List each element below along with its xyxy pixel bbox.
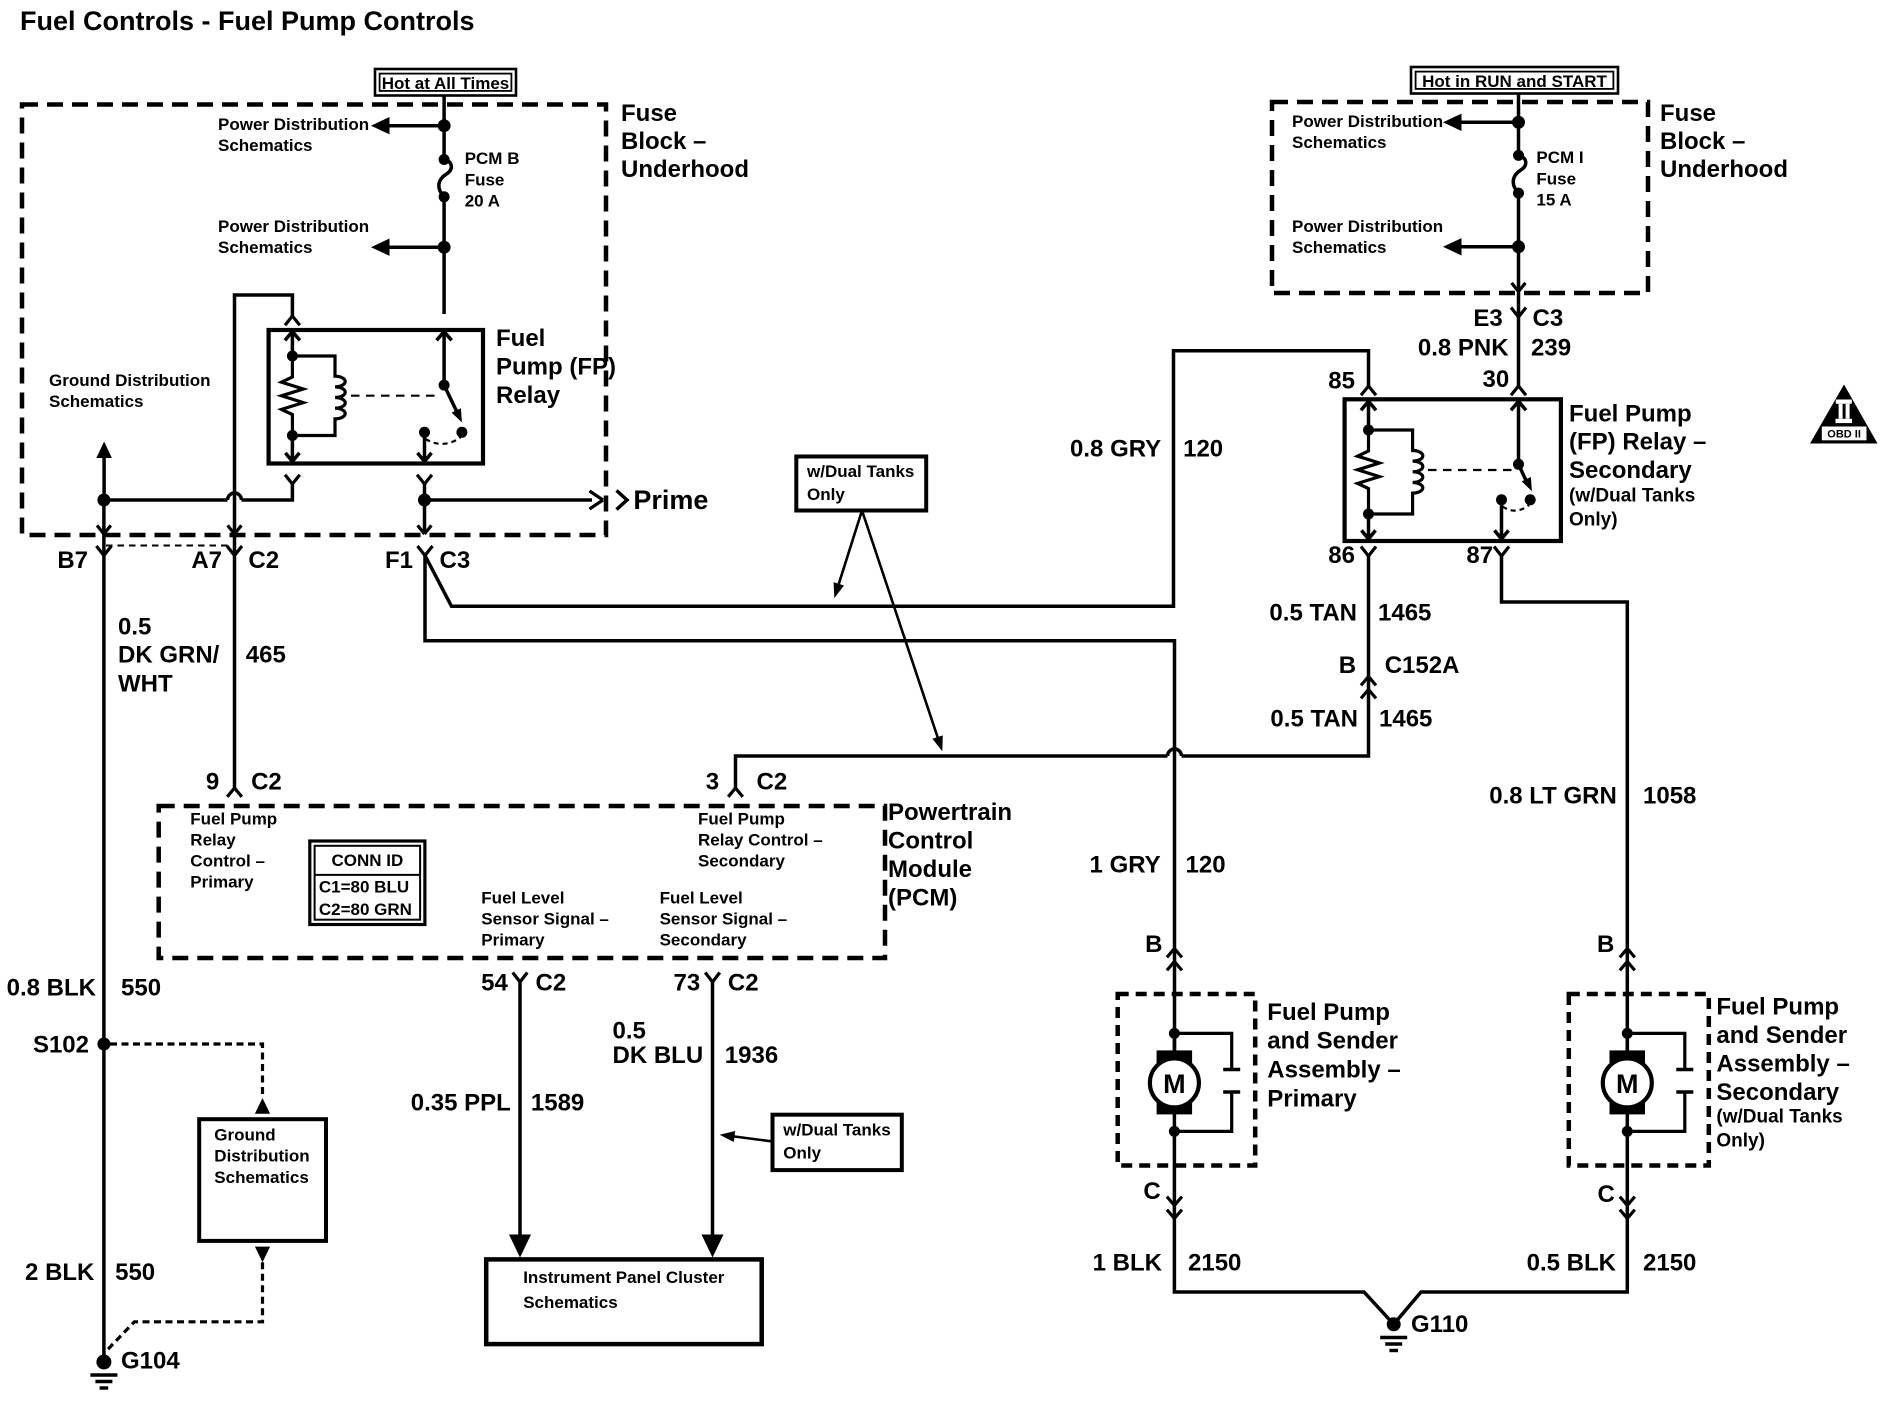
svg-text:1 BLK: 1 BLK xyxy=(1093,1250,1163,1277)
fuse PCM I 15A xyxy=(1513,150,1526,199)
svg-text:Fuse: Fuse xyxy=(1536,169,1576,188)
svg-text:30: 30 xyxy=(1482,366,1509,393)
svg-text:Ground Distribution: Ground Distribution xyxy=(49,371,210,390)
arrow down out of ground distribution reference xyxy=(255,1247,270,1263)
arrow up toward Ground Distribution Schematics xyxy=(96,442,112,501)
label: Power Distribution Schematics (right bottom) xyxy=(1292,217,1443,257)
inline connector C double chevron (primary pump) xyxy=(1167,1197,1182,1219)
svg-text:C2=80 GRN: C2=80 GRN xyxy=(319,900,412,919)
svg-text:C: C xyxy=(1143,1178,1160,1205)
wire arrow to Power Distribution Schematics (right bottom) xyxy=(1443,238,1519,255)
svg-text:(PCM): (PCM) xyxy=(888,885,957,912)
svg-text:E3: E3 xyxy=(1473,305,1502,332)
fuse block underhood (left) dashed box xyxy=(22,105,606,536)
wire hop over GRY wire xyxy=(1168,749,1182,756)
svg-text:Hot in RUN and START: Hot in RUN and START xyxy=(1422,72,1607,91)
secondary relay pin 85 arrow inside xyxy=(1361,401,1376,430)
secondary pump top node xyxy=(1622,1028,1633,1039)
connector Y at PCM pin 9 xyxy=(227,788,242,797)
fuse PCM B 20A xyxy=(439,154,452,202)
svg-text:Schematics: Schematics xyxy=(523,1293,618,1312)
svg-text:465: 465 xyxy=(246,642,286,669)
wire: A7 branch (bend above relay to pin 85 top) xyxy=(235,295,293,534)
svg-text:Block –: Block – xyxy=(621,128,706,155)
svg-text:20 A: 20 A xyxy=(465,192,500,211)
wire: A7 to PCM pin 9 xyxy=(233,534,237,788)
svg-text:Only): Only) xyxy=(1716,1131,1765,1152)
CONN ID table box xyxy=(310,841,425,925)
wire label 0.5 DK GRN/WHT 465 xyxy=(118,614,286,698)
svg-text:(w/Dual Tanks: (w/Dual Tanks xyxy=(1716,1107,1842,1128)
svg-text:w/Dual Tanks: w/Dual Tanks xyxy=(806,462,914,481)
svg-text:550: 550 xyxy=(115,1259,155,1286)
svg-text:Assembly –: Assembly – xyxy=(1716,1051,1849,1078)
svg-text:1465: 1465 xyxy=(1379,706,1432,733)
label: Power Distribution Schematics (bottom) xyxy=(218,217,369,257)
wire arrow to Power Distribution Schematics (top) xyxy=(371,117,444,134)
svg-text:Secondary: Secondary xyxy=(698,852,785,871)
svg-text:3: 3 xyxy=(706,769,719,796)
wire: F1 to secondary relay pin 85 (0.8 GRY 120) xyxy=(425,351,1369,607)
wire: pin 73 to instrument panel cluster (0.5 DK BLU 1936) xyxy=(702,982,724,1258)
svg-text:Assembly –: Assembly – xyxy=(1267,1057,1400,1084)
svg-text:Fuel Level: Fuel Level xyxy=(660,889,743,908)
w/Dual Tanks Only callout box (bottom) xyxy=(773,1115,902,1170)
svg-text:Secondary: Secondary xyxy=(1569,457,1692,484)
svg-text:C1=80 BLU: C1=80 BLU xyxy=(319,877,409,896)
svg-text:Prime: Prime xyxy=(633,485,708,515)
connector Y above secondary relay pin 30 xyxy=(1511,386,1526,395)
primary fuel level sender xyxy=(1174,1033,1231,1131)
secondary relay switch arm with arrowhead xyxy=(1519,464,1532,491)
ground G104 xyxy=(90,1355,117,1389)
label: Fuse Block - Underhood (left) xyxy=(621,100,749,183)
connector Y at PCM pin 54 xyxy=(513,973,528,983)
arrow up into ground distribution reference xyxy=(255,1098,270,1114)
svg-text:Relay: Relay xyxy=(496,382,561,409)
relay switch contact nodes xyxy=(419,427,430,438)
label: Fuel Pump (FP) Relay xyxy=(496,325,616,409)
svg-text:120: 120 xyxy=(1183,436,1223,463)
ground distribution schematics box xyxy=(199,1119,326,1241)
splice node S102 xyxy=(97,1038,110,1051)
svg-text:0.5: 0.5 xyxy=(118,614,151,641)
svg-text:and Sender: and Sender xyxy=(1716,1022,1847,1049)
svg-text:Fuel: Fuel xyxy=(496,325,545,352)
svg-text:Fuel Level: Fuel Level xyxy=(481,889,564,908)
svg-text:Fuse: Fuse xyxy=(621,100,677,127)
svg-text:A7: A7 xyxy=(191,547,222,574)
wire: fuse to tap 2 (right) xyxy=(1517,193,1521,291)
svg-text:Control –: Control – xyxy=(190,852,265,871)
svg-text:0.5 TAN: 0.5 TAN xyxy=(1269,600,1357,627)
secondary relay coil top node xyxy=(1363,425,1374,436)
connector Y B7 xyxy=(96,546,111,556)
secondary relay coil bottom node xyxy=(1363,509,1374,520)
wire label 0.5 DK BLU 1936 xyxy=(613,1017,779,1069)
svg-text:Schematics: Schematics xyxy=(1292,238,1387,257)
svg-text:Underhood: Underhood xyxy=(621,156,749,183)
svg-text:C2: C2 xyxy=(251,769,282,796)
wire: battery feed from Hot at All Times down to fuse xyxy=(442,96,446,160)
svg-text:Powertrain: Powertrain xyxy=(888,799,1012,826)
label: Fuel Pump and Sender Assembly - Secondary (w/Dual Tanks Only) xyxy=(1716,994,1849,1152)
junction node on ground wire xyxy=(97,494,110,507)
relay pin 87 output arrow (bottom) xyxy=(418,432,432,461)
secondary relay pin 30 arrow inside xyxy=(1511,401,1526,464)
svg-text:1465: 1465 xyxy=(1378,600,1431,627)
svg-text:1058: 1058 xyxy=(1643,783,1696,810)
fuel pump relay secondary box xyxy=(1345,399,1561,541)
svg-text:0.5 TAN: 0.5 TAN xyxy=(1270,706,1358,733)
svg-text:B: B xyxy=(1339,652,1356,679)
secondary relay actuator dashed link xyxy=(1428,469,1513,471)
svg-text:CONN ID: CONN ID xyxy=(332,851,404,870)
secondary relay pin 87 output arrow xyxy=(1495,500,1509,539)
svg-text:Schematics: Schematics xyxy=(218,238,313,257)
svg-text:Secondary: Secondary xyxy=(1716,1079,1839,1106)
svg-text:2 BLK: 2 BLK xyxy=(25,1259,95,1286)
svg-text:Fuel Pump: Fuel Pump xyxy=(1716,994,1839,1021)
svg-text:Sensor Signal –: Sensor Signal – xyxy=(481,910,609,929)
svg-text:0.8 BLK: 0.8 BLK xyxy=(7,975,97,1002)
svg-text:Power Distribution: Power Distribution xyxy=(218,217,369,236)
svg-text:DK GRN/: DK GRN/ xyxy=(118,642,220,669)
svg-text:Power Distribution: Power Distribution xyxy=(1292,112,1443,131)
svg-text:B: B xyxy=(1145,931,1162,958)
junction node at power distribution tap 2 xyxy=(438,241,451,254)
wire: pin 86 to PCM pin 3 (0.5 TAN 1465, with hop over GRY wire) xyxy=(736,556,1369,788)
connector Y F1 xyxy=(418,546,433,556)
fuel pump and sender assembly secondary dashed box xyxy=(1569,994,1709,1166)
relay coil top node xyxy=(287,351,298,362)
primary pump bottom node xyxy=(1169,1126,1180,1137)
wire: pin 54 to instrument panel cluster (0.35 PPL 1589) xyxy=(509,982,531,1258)
secondary pump motor M2 xyxy=(1603,1033,1652,1131)
fuse block underhood (right) dashed box xyxy=(1272,102,1648,293)
dashed reference link ground distribution box to G104 xyxy=(105,1262,263,1352)
fuel pump and sender assembly primary dashed box xyxy=(1118,994,1256,1166)
secondary relay resistor xyxy=(1358,430,1380,514)
svg-text:1589: 1589 xyxy=(531,1090,584,1117)
svg-text:F1: F1 xyxy=(385,547,413,574)
w/Dual Tanks Only callout box (middle) xyxy=(796,457,926,511)
thin dashed connector line between B7 and A7 xyxy=(106,545,232,547)
svg-text:M: M xyxy=(1163,1069,1186,1099)
svg-text:Primary: Primary xyxy=(190,873,254,892)
svg-text:Fuel Pump: Fuel Pump xyxy=(698,810,785,829)
svg-text:87: 87 xyxy=(1466,542,1493,569)
svg-text:2150: 2150 xyxy=(1643,1250,1696,1277)
svg-text:Primary: Primary xyxy=(481,931,545,950)
svg-text:0.5 BLK: 0.5 BLK xyxy=(1527,1250,1617,1277)
relay coil bottom node xyxy=(287,430,298,441)
wire: E3 to relay pin 30 (0.8 PNK 239) xyxy=(1517,292,1521,387)
svg-text:Fuse: Fuse xyxy=(465,170,505,189)
callout arrow to GRY wire xyxy=(834,511,862,599)
svg-text:G110: G110 xyxy=(1411,1311,1468,1338)
svg-text:Relay Control –: Relay Control – xyxy=(698,831,823,850)
wire arrow to Power Distribution Schematics (right top) xyxy=(1443,114,1519,131)
svg-text:239: 239 xyxy=(1531,335,1571,362)
secondary pump bottom node xyxy=(1622,1126,1633,1137)
svg-text:Underhood: Underhood xyxy=(1660,156,1788,183)
relay coil winding xyxy=(292,356,345,436)
svg-text:73: 73 xyxy=(673,970,700,997)
relay switch arm with arrowhead xyxy=(444,385,462,422)
junction node tap 2 (right) xyxy=(1512,240,1525,253)
svg-text:and Sender: and Sender xyxy=(1267,1028,1398,1055)
callout arrow to TAN wire xyxy=(862,511,943,752)
label: Fuse Block - Underhood (right) xyxy=(1660,100,1788,183)
svg-text:C2: C2 xyxy=(536,970,567,997)
connector Y below secondary relay pin 87 xyxy=(1494,547,1509,557)
wire: pin 87 to secondary fuel pump (0.8 LT GRN 1058) xyxy=(1502,556,1628,1050)
label: Ground Distribution Schematics (in fuse block) xyxy=(49,371,210,411)
ground G110 xyxy=(1380,1317,1407,1350)
svg-text:0.35 PPL: 0.35 PPL xyxy=(411,1090,511,1117)
primary pump top node xyxy=(1169,1028,1180,1039)
PCM label: Fuel Pump Relay Control - Primary xyxy=(190,810,277,892)
wire: B7 vertical trunk down to G104 xyxy=(102,534,106,1355)
svg-text:Schematics: Schematics xyxy=(1292,133,1387,152)
Hot at All Times box xyxy=(375,69,516,96)
label: Fuel Pump (FP) Relay - Secondary (w/Dual Tanks Only) xyxy=(1569,400,1706,530)
label: Power Distribution Schematics (top) xyxy=(218,115,369,155)
svg-text:1 GRY: 1 GRY xyxy=(1090,852,1161,879)
svg-text:Control: Control xyxy=(888,828,973,855)
relay switch pivot node xyxy=(439,380,450,391)
secondary relay switch pivot node xyxy=(1513,459,1524,470)
OBD II symbol xyxy=(1810,385,1878,444)
svg-text:Sensor Signal –: Sensor Signal – xyxy=(660,910,788,929)
svg-text:Schematics: Schematics xyxy=(218,136,313,155)
svg-text:9: 9 xyxy=(206,769,219,796)
svg-text:(w/Dual Tanks: (w/Dual Tanks xyxy=(1569,486,1695,507)
connector Y above secondary relay pin 85 xyxy=(1361,386,1376,395)
wire: secondary pump ground lead (0.5 BLK 2150) xyxy=(1394,1131,1628,1324)
connector Y below relay output pin xyxy=(417,475,432,484)
svg-text:w/Dual Tanks: w/Dual Tanks xyxy=(782,1120,890,1139)
label: Fuel Pump and Sender Assembly - Primary xyxy=(1267,999,1400,1112)
PCM label: Fuel Level Sensor Signal - Primary xyxy=(481,889,609,950)
svg-text:PCM B: PCM B xyxy=(465,149,520,168)
svg-text:120: 120 xyxy=(1186,852,1226,879)
wire: ignition feed down to fuse PCM I xyxy=(1517,94,1521,156)
relay resistor xyxy=(282,356,304,436)
inline connector B double chevron (secondary pump) xyxy=(1620,949,1635,971)
svg-text:Fuel Pump: Fuel Pump xyxy=(1267,999,1390,1026)
relay pin 85 arrow inside (left top) xyxy=(285,332,300,357)
svg-text:G104: G104 xyxy=(121,1347,180,1374)
wire hop over A7 wire xyxy=(228,493,242,500)
svg-text:DK BLU: DK BLU xyxy=(613,1042,704,1069)
wire: fuse to tap 2 xyxy=(442,197,446,314)
svg-text:Fuel Controls - Fuel Pump Cont: Fuel Controls - Fuel Pump Controls xyxy=(20,6,475,36)
fuel pump relay FP box (primary) xyxy=(269,330,483,464)
relay switch travel dashed arc xyxy=(426,438,461,444)
callout arrow to DK BLU wire xyxy=(720,1131,773,1142)
svg-text:Power Distribution: Power Distribution xyxy=(218,115,369,134)
connector Y at PCM pin 73 xyxy=(705,973,720,983)
svg-text:Schematics: Schematics xyxy=(214,1168,308,1187)
PCM label: Fuel Pump Relay Control - Secondary xyxy=(698,810,823,871)
svg-text:Ground: Ground xyxy=(214,1126,275,1145)
connector Y above relay left pin xyxy=(285,316,300,325)
svg-text:C: C xyxy=(1597,1181,1614,1208)
svg-text:B: B xyxy=(1597,931,1614,958)
svg-text:Fuse: Fuse xyxy=(1660,100,1716,127)
node label: Prime xyxy=(617,485,709,515)
svg-text:Only): Only) xyxy=(1569,510,1618,531)
svg-text:Schematics: Schematics xyxy=(49,392,144,411)
inline connector C double chevron (secondary pump) xyxy=(1620,1197,1635,1219)
svg-text:WHT: WHT xyxy=(118,671,173,698)
svg-text:Only: Only xyxy=(783,1144,821,1163)
connector Y at PCM pin 3 xyxy=(728,788,743,797)
svg-text:Only: Only xyxy=(807,485,845,504)
svg-text:C2: C2 xyxy=(728,970,759,997)
svg-text:B7: B7 xyxy=(57,547,88,574)
secondary fuel level sender xyxy=(1627,1033,1685,1131)
relay actuator dashed link xyxy=(351,395,441,397)
wire: junction to relay coil return (with hop over A7 wire) xyxy=(104,484,293,500)
svg-text:C152A: C152A xyxy=(1385,652,1460,679)
primary pump motor M1 xyxy=(1150,1033,1199,1131)
secondary relay coil bottom pin arrow xyxy=(1362,514,1376,539)
svg-text:Fuel Pump: Fuel Pump xyxy=(190,810,277,829)
arrowhead at border (A7) xyxy=(228,525,242,534)
svg-text:Block –: Block – xyxy=(1660,128,1745,155)
inline connector B double chevron (primary pump) xyxy=(1167,949,1182,971)
connector Y below relay pin 86 (left pin bottom) xyxy=(285,475,300,484)
powertrain control module PCM dashed box xyxy=(159,806,885,958)
svg-text:Module: Module xyxy=(888,856,972,883)
svg-text:0.8 LT GRN: 0.8 LT GRN xyxy=(1489,783,1617,810)
wire: F1 to primary fuel pump (1 GRY 120) xyxy=(425,556,1175,1051)
svg-text:Pump (FP): Pump (FP) xyxy=(496,354,616,381)
junction node prime tap xyxy=(418,494,431,507)
svg-text:Primary: Primary xyxy=(1267,1085,1357,1112)
junction node tap 1 (right) xyxy=(1512,116,1525,129)
svg-text:S102: S102 xyxy=(33,1032,89,1059)
svg-text:550: 550 xyxy=(121,975,161,1002)
label: PCM B Fuse 20 A xyxy=(465,149,520,211)
svg-text:C3: C3 xyxy=(440,547,471,574)
svg-text:Power Distribution: Power Distribution xyxy=(1292,217,1443,236)
relay coil bottom pin arrow xyxy=(285,436,299,462)
svg-text:0.5: 0.5 xyxy=(613,1017,646,1044)
secondary relay switch travel dashed arc xyxy=(1503,505,1530,511)
svg-text:85: 85 xyxy=(1328,368,1355,395)
svg-text:Relay: Relay xyxy=(190,831,236,850)
wire arrow to Power Distribution Schematics (bottom) xyxy=(371,239,444,256)
inline connector C152A double chevron xyxy=(1361,677,1376,699)
svg-text:C2: C2 xyxy=(757,769,788,796)
instrument panel cluster schematics box xyxy=(486,1259,762,1344)
PCM label: Fuel Level Sensor Signal - Secondary xyxy=(660,889,788,950)
junction node at power distribution tap 1 xyxy=(438,119,451,132)
svg-text:1936: 1936 xyxy=(725,1042,778,1069)
svg-text:15 A: 15 A xyxy=(1536,191,1571,210)
wire: B7 down to border xyxy=(102,500,106,534)
arrowhead at border (F1) xyxy=(418,525,432,534)
arrowhead at border (E3) xyxy=(1512,283,1526,292)
svg-text:C2: C2 xyxy=(248,547,279,574)
relay pin 30 arrow inside (right top) xyxy=(437,332,452,386)
svg-text:Hot at All Times: Hot at All Times xyxy=(382,74,510,93)
svg-text:Distribution: Distribution xyxy=(214,1147,309,1166)
connector Y E3/C3 xyxy=(1511,308,1526,318)
label: Powertrain Control Module (PCM) xyxy=(888,799,1012,912)
label: PCM I Fuse 15 A xyxy=(1536,148,1583,210)
dashed reference link S102 to ground distribution box xyxy=(110,1044,263,1096)
svg-text:(FP) Relay –: (FP) Relay – xyxy=(1569,429,1706,456)
svg-text:2150: 2150 xyxy=(1188,1250,1241,1277)
arrowhead at border (B7) xyxy=(97,525,111,534)
svg-text:0.8 GRY: 0.8 GRY xyxy=(1070,436,1161,463)
label: Power Distribution Schematics (right top) xyxy=(1292,112,1443,152)
Hot in RUN and START box xyxy=(1411,67,1618,94)
svg-text:PCM I: PCM I xyxy=(1536,148,1583,167)
svg-text:0.8 PNK: 0.8 PNK xyxy=(1418,335,1509,362)
svg-text:Instrument Panel Cluster: Instrument Panel Cluster xyxy=(523,1268,725,1287)
connector Y A7 xyxy=(227,546,242,556)
svg-text:86: 86 xyxy=(1328,542,1355,569)
secondary relay switch contact nodes xyxy=(1496,494,1507,505)
wire: relay output down to prime junction xyxy=(423,484,427,534)
connector Y below secondary relay pin 86 xyxy=(1361,547,1376,557)
svg-text:54: 54 xyxy=(481,970,508,997)
svg-text:Fuel Pump: Fuel Pump xyxy=(1569,400,1692,427)
wire: primary pump ground lead (1 BLK 2150) xyxy=(1174,1131,1393,1324)
wire: prime tap to Prime arrow xyxy=(425,491,604,509)
svg-text:OBD II: OBD II xyxy=(1827,429,1861,441)
svg-text:M: M xyxy=(1616,1069,1639,1099)
svg-text:Secondary: Secondary xyxy=(660,931,747,950)
secondary relay coil winding xyxy=(1369,430,1423,514)
svg-text:C3: C3 xyxy=(1533,305,1564,332)
